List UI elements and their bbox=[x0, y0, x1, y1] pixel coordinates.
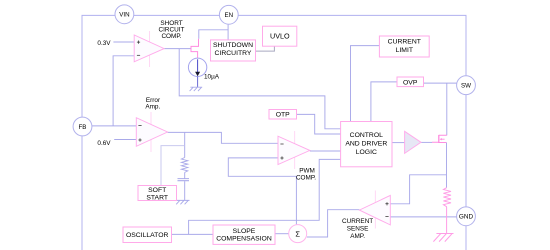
svg-text:0.3V: 0.3V bbox=[97, 40, 111, 47]
wire control logic to driver bbox=[392, 142, 405, 144]
pin VIN bbox=[115, 5, 134, 24]
svg-text:AND DRIVER: AND DRIVER bbox=[345, 141, 387, 148]
wire OVP to SW pin bbox=[424, 82, 457, 84]
svg-text:CIRCUITRY: CIRCUITRY bbox=[215, 50, 252, 57]
wire ground rail current sense amp - input to GND pin bbox=[390, 216, 456, 218]
svg-text:COMP.: COMP. bbox=[161, 33, 181, 40]
wire current limit to control logic bbox=[351, 46, 380, 122]
wire capacitor to ground bbox=[184, 181, 186, 200]
power stub short circuit comp bbox=[149, 31, 151, 67]
pin EN bbox=[219, 5, 238, 24]
wire outer border ring VIN-EN-SW-GND-FB bbox=[82, 15, 466, 250]
power stub current sense amp bbox=[374, 191, 376, 229]
wire SW node down to MOSFET drain bbox=[446, 83, 448, 135]
wire PWM comp output to control logic bbox=[310, 150, 341, 152]
box OVP bbox=[397, 77, 424, 87]
wire short comp output branch down and right to control logic bbox=[179, 49, 340, 129]
wire OTP to control logic bbox=[297, 114, 341, 134]
svg-text:SW: SW bbox=[461, 83, 471, 90]
box SHUTDOWN CIRCUITRY bbox=[211, 40, 256, 61]
wire compensation branch from error amp output bbox=[184, 132, 186, 157]
box OSCILLATOR bbox=[123, 227, 172, 243]
svg-text:COMP.: COMP. bbox=[296, 175, 316, 182]
wire FB branch up to short comp - input bbox=[113, 56, 134, 126]
svg-text:OSCILLATOR: OSCILLATOR bbox=[126, 232, 169, 239]
svg-text:CURRENT: CURRENT bbox=[342, 218, 373, 225]
svg-text:COMPENSASION: COMPENSASION bbox=[216, 236, 272, 243]
svg-text:10µA: 10µA bbox=[204, 73, 220, 80]
wire source branch to current sense amp + input bbox=[390, 175, 446, 204]
capacitor C comp plates bbox=[178, 179, 190, 181]
power stub PWM comp bbox=[294, 131, 296, 169]
wire oscillator to slope compensation bbox=[172, 233, 214, 235]
svg-text:VIN: VIN bbox=[119, 12, 129, 19]
svg-text:SENSE: SENSE bbox=[347, 226, 369, 233]
wire EN pin down to shutdown circuitry bbox=[227, 25, 229, 40]
svg-text:CURRENT: CURRENT bbox=[388, 39, 421, 46]
wire soft start stub bbox=[161, 146, 185, 186]
wire oscillator branch up to sigma node bbox=[189, 220, 297, 234]
svg-text:UVLO: UVLO bbox=[270, 31, 290, 40]
svg-text:SOFT: SOFT bbox=[148, 187, 166, 194]
op-amp PWM comparator bbox=[278, 136, 310, 164]
op-amp current sense amplifier bbox=[359, 195, 390, 225]
driver buffer triangle bbox=[405, 131, 421, 153]
wire resistor to capacitor bbox=[184, 172, 186, 178]
svg-text:LIMIT: LIMIT bbox=[396, 47, 413, 54]
svg-text:OTP: OTP bbox=[276, 112, 290, 119]
box CONTROL AND DRIVER LOGIC bbox=[341, 122, 392, 167]
svg-text:SLOPE: SLOPE bbox=[233, 228, 256, 235]
svg-text:START: START bbox=[146, 194, 168, 201]
node sigma summer bbox=[289, 225, 307, 243]
pin GND bbox=[457, 207, 476, 226]
box UVLO bbox=[263, 26, 297, 46]
wire slope compensation to sigma bbox=[275, 233, 289, 235]
box CURRENT LIMIT bbox=[379, 36, 429, 57]
power stub error amp bbox=[150, 112, 152, 152]
wire MOSFET source down to sense resistor bbox=[446, 143, 448, 188]
current source 10uA circle bbox=[188, 58, 206, 76]
ground current source bbox=[190, 87, 203, 91]
svg-text:Amp.: Amp. bbox=[145, 104, 160, 111]
op-amp error amplifier bbox=[136, 118, 167, 147]
wire short comp output to switch jog bbox=[164, 48, 190, 50]
wire sigma up and U-turn to PWM comp + input bbox=[228, 158, 296, 225]
wire FB to error amp - input bbox=[92, 125, 136, 127]
svg-text:FB: FB bbox=[79, 124, 87, 131]
wire EN branch left to current source node bbox=[199, 30, 228, 39]
svg-text:EN: EN bbox=[224, 12, 233, 19]
ground comp network bbox=[176, 200, 189, 204]
wire OVP to control logic bbox=[371, 82, 397, 122]
svg-text:OVP: OVP bbox=[403, 79, 418, 86]
svg-text:PWM: PWM bbox=[299, 168, 315, 175]
svg-text:Σ: Σ bbox=[295, 229, 300, 238]
svg-text:GND: GND bbox=[459, 214, 474, 221]
svg-text:SHUTDOWN: SHUTDOWN bbox=[213, 42, 253, 49]
wire sense resistor to pink ground bbox=[446, 207, 448, 234]
MOSFET Q1 bbox=[438, 135, 440, 143]
svg-text:AMP.: AMP. bbox=[350, 233, 365, 240]
svg-text:CONTROL: CONTROL bbox=[350, 132, 383, 139]
switch jog from comparator to current source bbox=[191, 39, 199, 58]
pin FB bbox=[73, 117, 92, 136]
pin SW bbox=[457, 76, 476, 95]
wire 0.6V to error amp + input bbox=[114, 139, 136, 141]
wire control logic clock line down to sigma node bbox=[296, 159, 340, 220]
svg-text:0.6V: 0.6V bbox=[97, 140, 111, 147]
wire current source to ground bbox=[197, 77, 199, 88]
sense resistor (pink zigzag) bbox=[443, 188, 451, 207]
wire error amp output to PWM comp - input bbox=[168, 132, 279, 143]
ground power (pink) bbox=[433, 234, 453, 242]
resistor R comp (zigzag) bbox=[181, 158, 187, 173]
op-amp short circuit comparator bbox=[134, 35, 164, 62]
box SOFT START bbox=[138, 186, 177, 201]
box SLOPE COMPENSASION bbox=[213, 225, 275, 244]
wire 0.3V to short comp + input bbox=[113, 41, 134, 43]
wire driver to MOSFET gate bbox=[421, 141, 432, 143]
box OTP bbox=[269, 110, 297, 120]
wire shutdown circuitry to UVLO bbox=[256, 46, 275, 51]
svg-text:LOGIC: LOGIC bbox=[356, 149, 377, 156]
wire current sense amp output to sigma bbox=[307, 210, 360, 237]
